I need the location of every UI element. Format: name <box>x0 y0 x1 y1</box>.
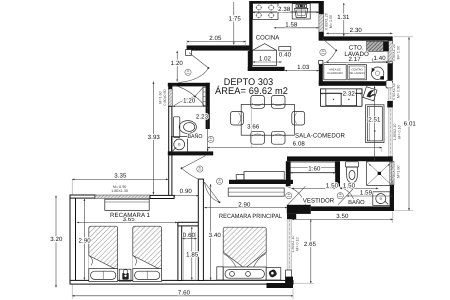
right wall door jamb box <box>386 81 393 88</box>
bathroom1 door leaf (on wall) <box>203 87 206 106</box>
bedroom1 top wall left segment (hollow) <box>70 195 95 198</box>
dim 2.23 bathroom1 height <box>207 106 209 151</box>
svg-text:1.40: 1.40 <box>373 55 386 62</box>
dim 2.05 entrance wall <box>187 41 246 43</box>
dim 3.50 below vestidor <box>292 218 393 220</box>
washbasin1 <box>171 136 187 152</box>
main bedroom window bottom jamb box <box>286 270 292 283</box>
svg-text:1.50: 1.50 <box>326 183 339 190</box>
svg-text:3.20: 3.20 <box>50 236 63 243</box>
laundry door jamb cap <box>319 60 323 64</box>
dim 2.32 sofa <box>320 93 362 95</box>
entrance door jamb box <box>186 50 192 56</box>
svg-text:6.08: 6.08 <box>293 140 306 147</box>
svg-text:2.38: 2.38 <box>278 6 291 13</box>
kitchen lower-left wall vertical <box>248 51 252 71</box>
stove <box>253 3 278 19</box>
bathroom1 left wall lower (hollow) <box>169 106 172 152</box>
entrance door swing arc <box>178 68 208 83</box>
svg-text:2.32: 2.32 <box>343 91 356 98</box>
main bedroom window strip (dashed) <box>287 219 292 270</box>
svg-text:BAÑO: BAÑO <box>188 133 203 140</box>
dims 1.50 1.50 <box>292 187 335 189</box>
dim 2.17 laundry interior <box>326 61 388 63</box>
dining table <box>241 104 294 135</box>
right wall small column block <box>387 101 393 107</box>
bath2 door swing arc <box>338 186 355 204</box>
toilet1 bowl <box>179 121 196 134</box>
kitchen left wall <box>249 1 252 51</box>
hall left wall (hollow) <box>169 155 172 197</box>
laundry bottom wall <box>319 81 393 86</box>
svg-text:1.58: 1.58 <box>285 21 298 28</box>
dim 1.31 vertical kitchen right <box>343 3 345 36</box>
svg-text:1.75: 1.75 <box>229 16 242 23</box>
dim 2.51 console <box>374 86 376 160</box>
svg-text:3.50: 3.50 <box>336 213 349 220</box>
main bedroom top wall <box>229 180 293 184</box>
desk against sala wall <box>244 171 284 179</box>
nightstand with lamp between beds <box>119 269 131 281</box>
dim 3.66 dining <box>250 97 252 148</box>
outlet symbol bath2 <box>337 193 343 199</box>
svg-text:ÁREA= 69.62 m2: ÁREA= 69.62 m2 <box>215 85 288 97</box>
bathroom1 right wall <box>206 83 210 129</box>
svg-text:1.03: 1.03 <box>297 64 310 71</box>
washbasin2 <box>373 192 390 206</box>
svg-text:M=1.60: M=1.60 <box>159 91 163 103</box>
vestidor door swing arc <box>286 186 306 204</box>
area de guardado box <box>324 65 346 80</box>
dim 1.40 washer <box>372 60 392 62</box>
svg-text:1.50: 1.50 <box>343 183 356 190</box>
plant <box>363 87 377 101</box>
svg-text:0.80x0.60: 0.80x0.60 <box>163 89 167 105</box>
vestidor closet <box>290 162 335 173</box>
svg-text:RECAMARA 1: RECAMARA 1 <box>110 212 151 219</box>
svg-text:VESTIDOR: VESTIDOR <box>303 198 335 205</box>
bathroom1 left wall upper <box>168 86 172 89</box>
svg-text:3.93: 3.93 <box>148 134 161 141</box>
bathroom1 window 0.80x0.60 (hatched) <box>168 89 172 106</box>
dim 6.01 right side <box>408 37 410 210</box>
laundry door swing arc <box>323 50 336 63</box>
svg-text:2.05: 2.05 <box>209 35 222 42</box>
bathroom1 top wall <box>168 83 210 87</box>
bathroom1 door swing arcs <box>173 85 196 97</box>
washing machine (hatched) <box>367 41 384 51</box>
svg-text:0.50X1.50: 0.50X1.50 <box>392 83 396 100</box>
right wall sliding window strip (dashed) <box>388 88 392 156</box>
dim 1.20 bathroom1 width <box>173 105 206 107</box>
main bed (hatched) <box>223 227 266 268</box>
shower <box>367 161 392 185</box>
dim 0.90 hall door <box>173 195 199 197</box>
bedroom1 left outer wall (hollow) <box>70 195 76 283</box>
svg-text:0.40: 0.40 <box>279 51 292 58</box>
closet top wall (hollow) <box>178 222 199 226</box>
svg-text:1.20: 1.20 <box>171 60 184 67</box>
svg-text:1.31: 1.31 <box>337 14 350 21</box>
main bedroom bottom corner stub <box>285 277 293 284</box>
outlet symbol bathroom1 <box>208 136 214 142</box>
svg-text:0.65X1.20: 0.65X1.20 <box>325 13 329 30</box>
bathroom1 bottom wall <box>168 151 213 155</box>
laundry top wall <box>319 36 393 40</box>
vestidor bottom wall <box>311 206 393 211</box>
svg-text:2.51: 2.51 <box>368 116 381 123</box>
vestidor/bath black block <box>287 205 311 214</box>
laundry door hinge dot <box>335 49 337 51</box>
left nightstand <box>217 267 223 280</box>
vestidor/bath2 divider wall <box>335 161 340 186</box>
svg-text:GUARDADO: GUARDADO <box>327 72 343 75</box>
vestidor left wall <box>286 161 291 186</box>
fridge <box>253 50 277 65</box>
svg-text:LAVADO: LAVADO <box>344 51 369 58</box>
dim 1.58 kitchen <box>274 27 319 29</box>
bath2 right wall window 0.80x0.60 (hatched) <box>390 161 394 185</box>
bedroom1 top wall right segment (hollow) <box>150 195 174 198</box>
svg-text:2.90: 2.90 <box>78 237 91 244</box>
closet left wall (hollow) <box>178 223 182 281</box>
dim 1.02 fridge <box>253 61 282 63</box>
bath2 right wall lower <box>390 185 394 211</box>
dim 2.38 kitchen counter <box>253 11 319 13</box>
svg-text:M= 1.00: M= 1.00 <box>329 15 333 28</box>
kitchen right wall corner below window <box>319 32 324 40</box>
svg-text:0.90: 0.90 <box>180 188 193 195</box>
kitchen right wall above window <box>319 1 324 14</box>
entrance wall (thick) <box>187 45 250 50</box>
sink <box>292 4 310 19</box>
vestidor door leaf <box>288 186 306 205</box>
dim 6.08 sala width <box>207 147 381 149</box>
dresser under window <box>105 199 149 210</box>
outlet symbol vestidor <box>286 193 292 199</box>
small 0.40 cabinet <box>279 47 291 51</box>
bathroom1 door leaf line <box>195 87 204 97</box>
toilet2 bowl <box>347 167 358 183</box>
kitchen window 0.65x1.20 (hatched) <box>319 14 324 32</box>
hall/main-bedroom dividing wall (hollow) <box>198 179 203 280</box>
dim 1.75 vertical top <box>233 2 235 45</box>
dim 3.20 bedroom1 left <box>55 196 57 288</box>
toilet2 tank <box>345 162 358 167</box>
hall door leaf <box>182 156 206 169</box>
laundry door leaf <box>322 39 336 51</box>
dim 3.40 main bedroom height <box>210 184 212 280</box>
right wall solid segment <box>388 64 393 81</box>
right nightstand with lamp <box>266 268 281 280</box>
main bedroom door hinge dot <box>218 201 220 203</box>
main bedroom door leaf <box>204 182 219 202</box>
svg-text:0.80X0.60: 0.80X0.60 <box>392 163 396 180</box>
closet main bedroom <box>228 188 284 196</box>
kitchen bottom wall under fridge <box>248 67 285 71</box>
laundry tub circle <box>371 67 383 79</box>
svg-text:2.65: 2.65 <box>304 241 317 248</box>
wire <box>70 1 394 288</box>
svg-text:M= 1.00: M= 1.00 <box>397 46 401 59</box>
closet extension lines <box>182 232 184 280</box>
svg-text:1.60: 1.60 <box>308 165 321 172</box>
outlet symbol laundry <box>320 49 326 55</box>
dim 3.93 left side <box>152 82 154 195</box>
svg-text:3.66: 3.66 <box>247 123 260 130</box>
svg-text:M=1.60: M=1.60 <box>396 165 400 177</box>
hall door hinge dot <box>181 167 183 169</box>
outlet symbol hall <box>197 166 203 172</box>
dim 7.60 bottom <box>72 295 293 297</box>
dim 2.65 right of main bedroom <box>310 219 312 283</box>
outlet symbol entry <box>185 69 191 75</box>
dim 1.59 bath2 <box>347 195 393 197</box>
dining chairs <box>251 95 265 108</box>
bed 2 (hatched) <box>133 226 162 270</box>
toilet1 tank <box>174 117 180 138</box>
svg-text:COCINA: COCINA <box>256 35 280 42</box>
bath2 door leaf <box>338 187 355 205</box>
entrance door hinge dot <box>207 67 209 69</box>
svg-text:0.90X1.20: 0.90X1.20 <box>392 44 396 61</box>
sala/vestidor dividing wall <box>287 156 393 161</box>
dim 3.65 bedroom1 width <box>77 221 177 223</box>
svg-text:2.90: 2.90 <box>238 201 251 208</box>
dim 2.30 laundry top <box>326 32 392 34</box>
svg-text:1.80X2.10: 1.80X2.10 <box>393 124 397 141</box>
svg-text:0.60: 0.60 <box>183 232 196 239</box>
right wall window 0.90x1.20 (hatched) <box>388 41 393 64</box>
svg-text:M= 0.10: M= 0.10 <box>398 125 402 138</box>
svg-text:SALA-COMEDOR: SALA-COMEDOR <box>295 132 345 139</box>
dim 1.20 entry door <box>176 51 178 82</box>
kitchen top wall <box>249 1 320 3</box>
dim 1.60 vestidor closet <box>290 172 335 174</box>
dim 1.03 passage <box>285 70 319 72</box>
bottom outer wall (hollow) <box>70 280 293 284</box>
svg-text:6.01: 6.01 <box>404 120 417 127</box>
dim 2.90 bedroom1 height <box>83 199 85 280</box>
entrance door leaf <box>189 53 208 68</box>
centro de lavado box <box>348 65 367 80</box>
bed 1 (hatched) <box>89 226 118 270</box>
svg-text:1.20: 1.20 <box>183 98 196 105</box>
svg-text:DE LAVADO: DE LAVADO <box>350 72 365 75</box>
tv console <box>366 105 384 143</box>
dim 2.90 main bedroom width <box>204 207 287 209</box>
kitchen counter edge line <box>253 11 319 13</box>
svg-text:M= 0.10: M= 0.10 <box>295 237 299 250</box>
svg-text:2.30: 2.30 <box>350 27 363 34</box>
svg-text:1.59: 1.59 <box>360 189 373 196</box>
svg-text:1.80X2.10: 1.80X2.10 <box>291 236 295 253</box>
main bedroom right wall stub <box>287 214 296 219</box>
laundry left wall lower segment <box>319 62 323 86</box>
svg-text:1.80X1.30: 1.80X1.30 <box>111 189 128 193</box>
svg-text:7.60: 7.60 <box>178 290 191 297</box>
svg-text:1.85: 1.85 <box>186 252 199 259</box>
outlet symbol hall2 <box>217 178 223 184</box>
main bedroom door swing arc <box>204 182 219 202</box>
svg-text:3.35: 3.35 <box>114 172 127 179</box>
dim 0.60 closet width <box>182 238 196 240</box>
svg-text:1.02: 1.02 <box>259 56 272 63</box>
svg-text:2.23: 2.23 <box>196 113 209 120</box>
dim 3.35 hall width <box>72 178 168 180</box>
svg-text:RECAMARA PRINCIPAL: RECAMARA PRINCIPAL <box>219 213 283 220</box>
sofa <box>320 89 362 107</box>
bottom wall thick segment under main bedroom <box>267 283 294 288</box>
dim 1.85 closet height <box>191 227 193 280</box>
hall door swing arc <box>182 168 199 179</box>
svg-text:3.40: 3.40 <box>209 232 222 239</box>
main bed pillow band <box>223 267 266 280</box>
bedroom1 window 1.80x1.30 (hatched) <box>95 195 150 198</box>
svg-text:M= 0.90: M= 0.90 <box>397 85 401 98</box>
svg-text:BAÑO: BAÑO <box>348 199 365 206</box>
